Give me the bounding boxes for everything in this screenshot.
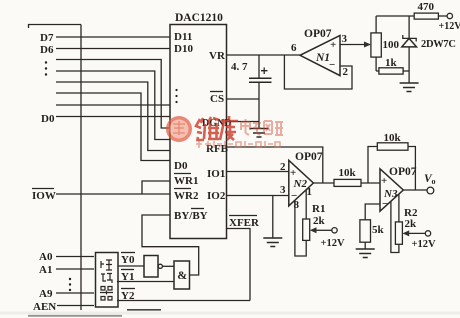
svg-text:A1: A1	[39, 264, 52, 276]
wire IOW to WR2	[56, 193, 170, 195]
resistor R5 10k series	[334, 167, 380, 186]
wire N3 output to Vo terminal	[403, 189, 427, 191]
wire D1 straight into chip	[56, 104, 170, 106]
wire IO2 to N2 pin3	[227, 195, 289, 197]
svg-text:2: 2	[343, 66, 349, 78]
watermark small text row	[196, 141, 280, 148]
wire AND output to BY/BY pin	[142, 215, 199, 275]
ground below capacitor	[250, 129, 269, 138]
chip pin label CS (active low)	[210, 92, 224, 106]
net XFER label (active low)	[229, 216, 260, 230]
svg-text:N2: N2	[293, 178, 308, 190]
terminal +12V top	[439, 13, 460, 32]
scan artifact line bottom-left	[28, 315, 122, 317]
wire A1 to decoder	[56, 268, 94, 270]
svg-text:IOW: IOW	[32, 190, 56, 202]
svg-text:D0: D0	[174, 160, 188, 172]
svg-text:+12V: +12V	[439, 21, 460, 32]
net Y1 label (active low)	[121, 270, 134, 284]
svg-text:Y0: Y0	[121, 254, 135, 266]
wire IO2 ground branch	[272, 196, 274, 238]
svg-text:WR2: WR2	[174, 190, 199, 202]
wire D2 bent into chip	[56, 93, 170, 161]
svg-text:N1: N1	[315, 52, 330, 64]
scan streak bottom	[0, 312, 460, 315]
svg-text:D11: D11	[174, 31, 192, 43]
chip U1 DAC1210 outline	[170, 12, 227, 239]
svg-text:A9: A9	[39, 288, 53, 300]
decoder U2 (address decoder)	[96, 253, 119, 308]
svg-text:WR1: WR1	[174, 175, 198, 187]
svg-text:2DW7C: 2DW7C	[421, 39, 456, 50]
svg-text:BY/BY: BY/BY	[174, 210, 208, 222]
svg-text:D7: D7	[40, 32, 54, 44]
svg-text:3: 3	[342, 33, 348, 45]
wire AEN to decoder	[57, 305, 94, 307]
svg-text:N3: N3	[383, 188, 398, 200]
svg-text:VR: VR	[209, 50, 226, 62]
svg-text:+12V: +12V	[321, 238, 345, 249]
svg-text:+12V: +12V	[412, 239, 436, 250]
potentiometer RP1 100	[371, 16, 400, 71]
op-amp N3 OP07	[380, 166, 417, 211]
resistor R7 5k	[360, 204, 385, 249]
svg-text:10k: 10k	[339, 167, 357, 179]
svg-text:IO2: IO2	[207, 190, 226, 202]
svg-text:XFER: XFER	[229, 217, 260, 229]
watermark stamp circle	[166, 116, 192, 142]
svg-text:6: 6	[291, 42, 297, 54]
svg-text:OP07: OP07	[295, 151, 323, 163]
scan artifact short line	[127, 309, 161, 311]
zener diode VD1 2DW7C	[402, 16, 456, 83]
svg-text:DAC1210: DAC1210	[175, 12, 223, 24]
watermark big text wei-ku	[196, 116, 238, 140]
svg-text:A0: A0	[39, 251, 53, 263]
chip inner dots	[175, 89, 177, 103]
node IOW label (active low)	[32, 189, 56, 203]
svg-text:1k: 1k	[385, 57, 398, 69]
op-amp N1 OP07 (points left)	[291, 28, 349, 78]
potentiometer R1 2k offset null	[295, 190, 345, 257]
left bus dots	[45, 61, 47, 75]
svg-text:100: 100	[383, 39, 400, 51]
svg-text:OP07: OP07	[389, 166, 417, 178]
svg-text:2k: 2k	[405, 218, 418, 230]
svg-text:D0: D0	[41, 113, 55, 125]
wire VR to N1 output	[227, 54, 301, 56]
wire D5 bent into chip	[56, 60, 170, 129]
svg-text:3: 3	[280, 184, 286, 196]
potentiometer R2 2k offset null	[391, 194, 436, 253]
svg-text:1: 1	[307, 186, 313, 198]
wire XFER from chip to Y2	[227, 229, 251, 301]
svg-text:o: o	[432, 177, 436, 186]
address dots	[69, 278, 71, 291]
wire D4 bent into chip	[56, 71, 170, 140]
inverter gate G1	[144, 256, 162, 278]
svg-text:2k: 2k	[313, 215, 326, 227]
wire CS to ground rail	[227, 98, 260, 100]
net Y0 label (active low)	[121, 253, 135, 267]
wire D3 bent into chip	[56, 82, 170, 151]
wire Y0 decoder to inverter	[118, 265, 144, 267]
ground below 5k	[356, 249, 375, 258]
svg-text:−: −	[329, 59, 335, 71]
net Y2 label (active low)	[121, 289, 135, 303]
wire D6 to D10	[56, 48, 170, 50]
svg-text:+: +	[330, 39, 336, 51]
svg-text:10k: 10k	[384, 132, 402, 144]
svg-text:4. 7: 4. 7	[231, 61, 248, 73]
terminal Vo	[424, 173, 436, 194]
wire N1 pin3 to potentiometer wiper	[340, 44, 364, 46]
svg-text:OP07: OP07	[304, 28, 332, 40]
wire Y1 decoder to AND gate	[117, 281, 174, 283]
chip pin label WR2 (active low)	[174, 189, 199, 203]
chip pin label BY/BY-bar	[174, 209, 208, 223]
wire N1 pin2 feedback loop	[284, 55, 352, 89]
wire D0 straight into chip	[56, 116, 170, 118]
capacitor C1 4.7 polarized	[231, 55, 272, 128]
AND gate G2	[174, 261, 190, 289]
wire WR1 branch from IOW	[142, 181, 170, 194]
wire DGND to ground rail	[227, 121, 260, 123]
wire A0 to decoder	[56, 256, 94, 258]
wire Y2 decoder to XFER riser	[117, 300, 250, 302]
resistor R4 1k	[376, 57, 409, 74]
op-amp N2 OP07	[280, 151, 323, 211]
wire inverter to AND gate	[162, 265, 174, 267]
svg-text:D10: D10	[174, 43, 193, 55]
wire D7 to D11	[56, 36, 170, 38]
resistor R3 470	[376, 1, 447, 19]
svg-text:&: &	[177, 268, 187, 282]
wire N2 output to N3 input	[313, 182, 334, 184]
svg-text:IO1: IO1	[207, 168, 225, 180]
wire IO1 to N2 pin2	[227, 171, 289, 173]
svg-text:2: 2	[280, 161, 286, 173]
svg-text:AEN: AEN	[33, 301, 56, 313]
svg-text:470: 470	[418, 1, 435, 13]
vertical address/data bus line	[80, 25, 82, 311]
resistor R6 10k feedback	[368, 132, 415, 190]
chip pin label WR1 (active low)	[174, 174, 198, 188]
svg-text:R1: R1	[312, 203, 325, 215]
svg-text:5k: 5k	[372, 224, 385, 236]
ground below zener	[400, 83, 419, 92]
svg-text:D6: D6	[40, 44, 54, 56]
bus stub top-left	[29, 25, 82, 29]
svg-text:+: +	[381, 175, 387, 187]
wire RFB to N2 output	[227, 147, 323, 183]
watermark tail text	[241, 119, 283, 135]
wire A9 to decoder	[56, 292, 94, 294]
ground below IO2	[263, 238, 282, 247]
svg-text:CS: CS	[210, 93, 224, 105]
